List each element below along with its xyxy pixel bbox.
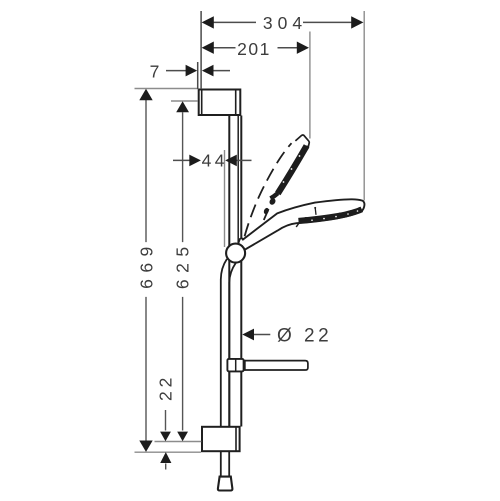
svg-text:Ø 22: Ø 22 bbox=[277, 326, 332, 347]
svg-text:7: 7 bbox=[150, 61, 160, 81]
svg-text:304: 304 bbox=[263, 13, 307, 33]
svg-text:625: 625 bbox=[173, 240, 193, 289]
svg-text:44: 44 bbox=[202, 150, 228, 170]
svg-text:669: 669 bbox=[136, 240, 156, 289]
svg-text:201: 201 bbox=[237, 39, 271, 59]
svg-text:22: 22 bbox=[156, 374, 176, 401]
